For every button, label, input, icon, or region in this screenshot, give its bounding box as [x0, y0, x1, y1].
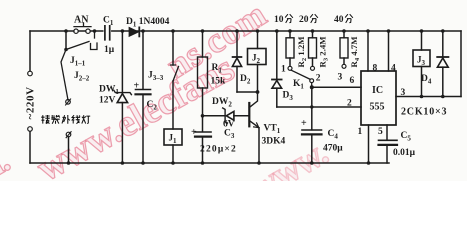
svg-text:2CK10×3: 2CK10×3 — [401, 107, 447, 118]
lamp terminal upper — [66, 100, 71, 105]
node J3-3 branch — [171, 29, 175, 33]
svg-text:DW2: DW2 — [212, 97, 232, 109]
relay coil J1 — [164, 129, 182, 145]
pole node — [311, 83, 313, 87]
lamp terminal lower — [66, 132, 71, 137]
node DW1 — [121, 29, 125, 33]
transistor VT1 — [249, 92, 259, 163]
node DW2 tap — [201, 114, 205, 118]
node J3 top — [420, 29, 424, 33]
bottom rail junction dots — [121, 161, 125, 165]
svg-text:12V: 12V — [99, 96, 116, 106]
svg-text:3: 3 — [401, 88, 406, 98]
node R3 — [311, 29, 315, 33]
svg-text:0.01μ: 0.01μ — [393, 148, 416, 158]
IC 555 box — [361, 71, 396, 125]
svg-text:www.: www. — [243, 132, 334, 181]
svg-text:R2 1.2M: R2 1.2M — [296, 36, 308, 68]
capacitor C2 electrolytic — [136, 31, 151, 163]
relay coil J3 — [413, 31, 430, 97]
svg-text:8: 8 — [373, 64, 378, 74]
svg-text:D1 1N4004: D1 1N4004 — [126, 17, 170, 29]
svg-text:3: 3 — [338, 73, 343, 83]
svg-text:20: 20 — [299, 15, 309, 25]
terminal lower ~220V — [28, 127, 33, 132]
node D3 — [275, 29, 279, 33]
svg-text:J1–1: J1–1 — [70, 56, 86, 68]
svg-text:J2–2: J2–2 — [74, 71, 90, 83]
svg-text:R3 2.4M: R3 2.4M — [318, 36, 330, 68]
capacitor C3 — [195, 132, 211, 163]
svg-text:470μ: 470μ — [323, 144, 343, 154]
resistor R1 — [198, 31, 208, 132]
svg-text:IC: IC — [372, 85, 383, 96]
svg-text:1: 1 — [281, 65, 286, 75]
svg-text:R4 4.7M: R4 4.7M — [349, 36, 361, 68]
diode D4 — [437, 31, 448, 97]
pin 1 wire — [368, 125, 370, 163]
wire J1 to bottom — [172, 145, 174, 163]
resistor R4 — [340, 31, 348, 64]
watermark www.elecfans.com lower-left diagonal — [0, 0, 274, 193]
contact 1 — [288, 66, 292, 70]
svg-text:D4: D4 — [421, 74, 432, 86]
resistor R2 — [286, 31, 294, 66]
svg-text:J2: J2 — [252, 53, 261, 66]
svg-text:1: 1 — [358, 127, 363, 137]
svg-text:3DK4: 3DK4 — [262, 137, 286, 147]
switch K1 blade — [291, 70, 310, 79]
svg-text:C4: C4 — [328, 129, 339, 141]
svg-text:AN: AN — [74, 15, 89, 26]
svg-text:+: + — [301, 118, 307, 129]
node R4 — [342, 29, 346, 33]
contact 2 — [311, 66, 315, 70]
svg-text:5: 5 — [378, 127, 383, 137]
relay contact J2-2 — [61, 50, 68, 101]
relay coil J2 — [248, 31, 267, 92]
svg-text:J3–3: J3–3 — [148, 71, 164, 83]
svg-text:555: 555 — [370, 102, 385, 113]
resistor R3 — [309, 31, 317, 66]
svg-text:1μ: 1μ — [104, 45, 115, 55]
right frame wire — [460, 31, 462, 97]
node J2 — [256, 29, 260, 33]
capacitor C5 — [379, 140, 398, 163]
node A junction on rail — [64, 29, 68, 33]
wire lamp terminal to bottom rail — [68, 137, 70, 163]
svg-text:C5: C5 — [401, 131, 412, 143]
zener DW1 — [114, 31, 131, 163]
svg-text:C1: C1 — [103, 16, 114, 28]
node D2 — [235, 29, 239, 33]
svg-text:+: + — [191, 127, 197, 138]
svg-text:K1: K1 — [293, 79, 304, 91]
left frame wire lower — [29, 131, 31, 163]
svg-text:~220V: ~220V — [25, 86, 37, 119]
svg-text:D2: D2 — [240, 74, 251, 86]
svg-text:220μ×2: 220μ×2 — [200, 145, 237, 155]
diode D3 — [272, 31, 282, 107]
diode D2 — [232, 31, 241, 92]
svg-text:2: 2 — [316, 74, 321, 84]
relay contact J3-3 — [171, 31, 179, 129]
node C2 — [141, 29, 145, 33]
capacitor C1 — [105, 26, 110, 40]
wire D3 / pin2 horizontal — [277, 106, 361, 108]
pushbutton AN — [74, 23, 91, 33]
svg-text:+: + — [134, 81, 140, 92]
svg-text:2: 2 — [347, 99, 352, 109]
pin 5 wire — [386, 125, 388, 140]
pin 3 wire — [396, 96, 461, 98]
svg-text:DW1: DW1 — [99, 85, 119, 97]
node R1 — [201, 29, 205, 33]
svg-text:10: 10 — [274, 15, 284, 25]
label 接紫外线灯 — [41, 115, 90, 124]
svg-text:J3: J3 — [417, 55, 426, 68]
svg-text:D3: D3 — [283, 91, 294, 103]
top rail — [30, 30, 461, 32]
capacitor C4 — [302, 87, 322, 163]
pin 4 wire — [388, 31, 390, 71]
svg-text:40: 40 — [334, 15, 344, 25]
bottom rail — [30, 162, 389, 164]
zener DW2 — [203, 108, 249, 123]
left frame wire upper — [29, 31, 31, 71]
wire node A down — [65, 31, 67, 50]
svg-text:m.: m. — [0, 140, 16, 181]
terminal upper ~220V — [28, 71, 33, 76]
svg-text:4: 4 — [391, 64, 396, 74]
svg-text:J1: J1 — [169, 133, 178, 146]
contact 3 — [342, 64, 346, 68]
pin 8 wire — [367, 31, 369, 71]
svg-text:6: 6 — [350, 76, 355, 86]
wire collector node — [237, 91, 258, 93]
node D4 top — [441, 29, 445, 33]
wire pole to pin6 — [312, 86, 361, 88]
diode D1 — [129, 27, 139, 36]
node R2 — [288, 29, 292, 33]
relay contact J1-1 — [66, 31, 97, 50]
svg-text:15k: 15k — [211, 77, 227, 87]
svg-text:C3: C3 — [224, 129, 235, 141]
pole circle K1 — [310, 79, 314, 83]
svg-text:VT1: VT1 — [264, 124, 281, 136]
